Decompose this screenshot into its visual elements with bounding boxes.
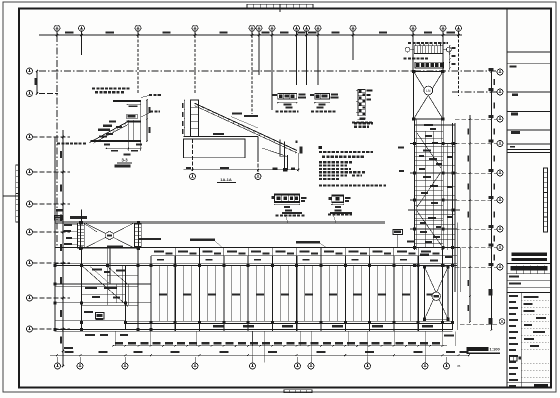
canopy corner nodes — [79, 221, 82, 224]
top grid droppers — [81, 35, 83, 55]
grid bubble x=318 — [315, 25, 321, 31]
shaft LN bubble — [424, 86, 433, 95]
title block dense header bars — [512, 253, 548, 256]
bottom bubble x=195 — [192, 363, 198, 369]
bottom bubble x=311 — [308, 363, 314, 369]
bottom bubble x=446.5 — [444, 363, 450, 369]
right grid bubble y=173 — [497, 170, 503, 176]
plan bottom line double — [55, 329, 453, 331]
plan second line — [151, 255, 457, 257]
axis droppers 413/443 through shaft — [412, 35, 414, 72]
grid bubble x=81.5 — [79, 25, 85, 31]
grid bubble y=263 — [27, 260, 33, 266]
detail 3-3 columns — [127, 120, 129, 151]
left short dim chain — [36, 71, 38, 94]
top grid dimension line — [39, 34, 462, 36]
canopy small text XB — [107, 245, 123, 247]
bottom long droppers to bubbles — [252, 331, 254, 362]
labels under bottom chord — [213, 325, 224, 327]
detail 3-3 extra annotations — [109, 120, 116, 122]
slab detail D — [275, 194, 300, 202]
svg-text:LN: LN — [426, 89, 431, 93]
left block extra horizontals — [82, 294, 126, 296]
right grid bubble y=267 — [497, 264, 503, 270]
grid bubble y=204 — [27, 201, 33, 207]
left block extra verticals — [110, 248, 112, 284]
top folding ruler — [247, 4, 254, 7]
grid bubble x=413 — [410, 25, 416, 31]
canopy leader texts above roof line — [282, 212, 302, 214]
notes block — [318, 146, 322, 149]
grid bubble y=232 — [27, 229, 33, 235]
detail 3-3 ramp diagonal — [90, 122, 129, 143]
plan column x=321 — [320, 256, 322, 332]
bottom bubble x=80 — [77, 363, 83, 369]
shaft walls — [414, 119, 416, 250]
grid bubble y=137 — [27, 134, 33, 140]
column section detail (vertical) — [358, 89, 365, 115]
left block verticals — [81, 248, 83, 329]
grid bubble x=195 — [192, 25, 198, 31]
left block stair diagonal — [83, 266, 128, 306]
ramp right annotations — [295, 141, 297, 143]
grid line axis 1 vertical dash-dot — [56, 35, 58, 248]
grid bubble x=272 — [269, 25, 275, 31]
right end extra nodes — [451, 246, 454, 249]
svg-text:3-3: 3-3 — [121, 158, 128, 163]
right small labels column — [489, 68, 494, 71]
bottom fine dim row — [113, 345, 447, 347]
right vertical dimension chain inner — [469, 115, 471, 322]
left binding ladder — [16, 165, 19, 222]
shaft top text row 2 — [404, 58, 407, 60]
note text left (foundation label) — [57, 143, 60, 145]
title block bottom black bar — [534, 384, 548, 387]
ramp 1A-1A left wall — [191, 100, 199, 137]
detail 3-3 bottom dims — [106, 148, 141, 150]
horizontal grid axis A — [39, 70, 497, 72]
plan left edge column — [54, 137, 56, 331]
plan column x=345 — [344, 256, 346, 332]
grid bubble x=296.5 — [294, 25, 300, 31]
right grid bubble y=229 — [497, 226, 503, 232]
secondary label marks below second line — [157, 259, 164, 261]
svg-text:1A-1A: 1A-1A — [220, 177, 232, 182]
grid bubble x=252 — [249, 25, 255, 31]
joist label specks mid-span — [159, 294, 167, 296]
plan top chord double — [55, 263, 457, 265]
beam labels above plan top line — [139, 238, 161, 240]
bottom bubble x=425 — [422, 363, 428, 369]
plan column x=175 — [174, 256, 176, 332]
detail 3-3 small annotations — [103, 125, 112, 127]
grid bubble y=298 — [27, 295, 33, 301]
canopy hexagon bubble — [106, 231, 113, 240]
detail 3-3 right dim chain — [146, 100, 148, 141]
bottom droppers to fine row — [114, 331, 116, 345]
right grid bubble y=247.5 — [497, 245, 503, 251]
bottom folding ruler — [284, 390, 290, 393]
grid bubble x=57 — [54, 25, 60, 31]
grid bubble y=329 — [27, 326, 33, 332]
right grid bubble y=200 — [497, 197, 503, 203]
plan top line — [55, 247, 460, 249]
bottom bubble x=125 — [122, 363, 128, 369]
right grid bubble y=72 — [497, 69, 503, 75]
title block stamp ladder — [544, 168, 548, 232]
plan column x=200 — [199, 256, 201, 332]
title block column — [506, 9, 508, 388]
detail 3-3 top bar dim — [127, 104, 140, 106]
text 1.02 under right end — [444, 335, 454, 337]
bottom bubble x=297.5 — [295, 363, 301, 369]
right X-bay — [425, 267, 449, 320]
plan column nodes top and bottom — [149, 264, 152, 267]
ramp right step — [257, 137, 259, 158]
plan column x=224 — [223, 256, 225, 332]
plan column x=370 — [369, 256, 371, 332]
grid bubble x=259 — [256, 25, 262, 31]
ramp vertical droppers — [192, 139, 194, 172]
ramp grid bubbles — [190, 174, 196, 180]
detail 3-3 mid bar — [127, 121, 141, 123]
plan column x=394 — [393, 256, 395, 332]
canopy right hatch strip — [135, 224, 142, 247]
canopy X-braced slab — [81, 223, 139, 249]
ramp 1A-1A slope (double line with hatch) — [195, 103, 298, 150]
right grid bubble y=119 — [497, 116, 503, 122]
beam section detail B4 — [278, 94, 297, 99]
right grid bubble y=143.5 — [497, 141, 503, 147]
grid bubble x=306.5 — [304, 25, 310, 31]
right grid bubble y=92 — [497, 89, 503, 95]
bottom bubble x=57.5 — [55, 363, 61, 369]
shaft floor lines — [415, 124, 455, 126]
shaft inner verticals — [425, 131, 427, 247]
title block project rows — [507, 291, 551, 293]
top dimension texts — [65, 32, 73, 34]
shaft joint nodes — [413, 142, 416, 145]
left block nodes — [80, 264, 83, 267]
intermediate joists — [158, 266, 160, 322]
bottom bubble x=367.5 — [365, 363, 371, 369]
canopy side annotations — [55, 216, 63, 221]
grid bubble x=138 — [135, 25, 141, 31]
ramp ground line — [184, 136, 259, 138]
ramp bottom dim line — [184, 169, 299, 171]
horizontal grid axis B — [39, 93, 58, 95]
ramp slope annotation — [232, 113, 242, 115]
title block small box row — [510, 356, 518, 362]
svg-text:1:100: 1:100 — [490, 347, 501, 352]
shaft top beam box — [414, 46, 443, 54]
grid bubble x=443 — [440, 25, 446, 31]
plan column x=297 — [296, 256, 298, 332]
grid bubble y=71 — [27, 68, 33, 74]
detail 3-3 title texts — [92, 88, 95, 90]
beam section detail B5 — [315, 94, 330, 99]
bottom-left coarse dim text — [64, 347, 73, 349]
slab detail E — [332, 195, 344, 202]
canopy roof line (double) — [55, 220, 385, 222]
right end small marks — [420, 254, 429, 256]
left grid leaders — [33, 136, 71, 138]
left vertical dimension chain — [62, 130, 64, 366]
ramp foundation box — [184, 139, 246, 158]
right vertical dimension chain outer — [491, 70, 493, 330]
grid bubble x=458.5 — [456, 25, 462, 31]
bottom bubble x=252.5 — [250, 363, 256, 369]
text -0.050 — [213, 133, 224, 135]
grid bubble y=93.5 — [27, 91, 33, 97]
plan bottom chord double — [125, 320, 452, 322]
beam label specks row (above top chord) — [154, 251, 164, 253]
plan column x=272 — [271, 256, 273, 332]
canopy left hatch strip — [78, 223, 85, 249]
beam stubs above chord — [174, 248, 176, 256]
grid bubble x=353 — [350, 25, 356, 31]
right grid bubble A — [499, 319, 505, 325]
canopy upstand column — [81, 210, 83, 223]
shaft X-brace box — [414, 72, 443, 120]
bottom coarse dim row — [50, 354, 469, 356]
plan column x=418 — [417, 256, 419, 332]
svg-text:35: 35 — [457, 364, 461, 368]
plan column x=442 — [442, 256, 444, 332]
shaft extra floor lines — [415, 137, 444, 139]
shaft top hatched box — [415, 62, 444, 68]
detail 3-3 top slab bar — [113, 100, 141, 102]
shaft top right dim ladder — [449, 45, 451, 70]
left block tiny labels — [92, 268, 102, 270]
plan column x=248 — [247, 256, 249, 332]
detail 3-3 bottom bar — [91, 140, 142, 142]
C13 labels mid right — [393, 230, 403, 235]
shaft top rebar text row — [408, 42, 411, 44]
grid bubble y=172 — [27, 169, 33, 175]
plan title — [467, 347, 489, 351]
title block row label texts — [510, 66, 517, 68]
shaft stair flight diagonals — [417, 133, 441, 168]
ramp 1A-1A wall dim ticks — [184, 100, 186, 137]
left block horizontals — [55, 283, 151, 285]
shaft tiny labels — [423, 150, 431, 152]
